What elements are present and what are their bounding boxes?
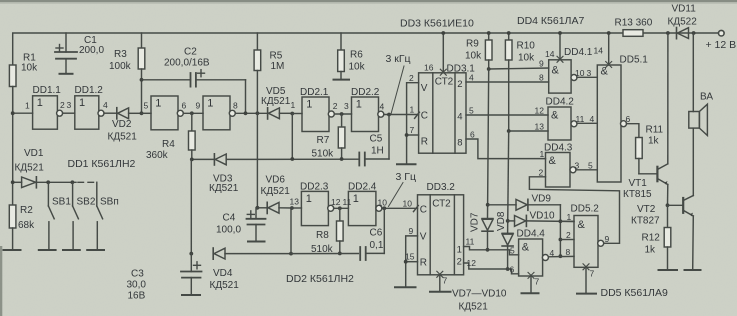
- node SB1 top: [46, 180, 50, 184]
- ground of DD3.2 VR riser: [395, 286, 416, 288]
- svg-text:3: 3: [67, 100, 72, 110]
- svg-text:DD4.4: DD4.4: [517, 229, 546, 240]
- svg-text:&: &: [522, 242, 530, 254]
- svg-text:3: 3: [344, 101, 349, 111]
- svg-text:R3: R3: [114, 49, 127, 60]
- svg-text:VD6: VD6: [266, 175, 286, 186]
- wire: DD3.2 out1 (pin11) to DD4.4 pin5: [464, 247, 519, 255]
- wire: VT1 emitter down to VT2 base node: [667, 185, 669, 206]
- resistor R2: [9, 182, 16, 250]
- resistor R1: [9, 65, 16, 87]
- svg-text:VD11: VD11: [672, 4, 697, 15]
- plus C4: [247, 211, 254, 218]
- power pin 7 of DD3.2: [437, 271, 443, 291]
- svg-text:DD1.1: DD1.1: [33, 85, 62, 96]
- svg-text:СТ2: СТ2: [432, 199, 451, 210]
- plus C1: [56, 45, 63, 52]
- svg-text:2: 2: [457, 257, 462, 268]
- svg-text:R12: R12: [642, 233, 661, 244]
- resistor R13 horizontal: [623, 30, 643, 37]
- wire: DD2.3 out to DD2.4 in: [334, 207, 349, 209]
- scan smudge left edge: [0, 246, 2, 316]
- capacitor C5: [359, 153, 389, 166]
- svg-text:4: 4: [103, 100, 108, 110]
- wire: DD1.4 out to VD5 and R5: [235, 112, 267, 114]
- wire: DD3.1 V input stub and ground riser: [407, 83, 419, 164]
- svg-text:DD4.3: DD4.3: [544, 143, 573, 154]
- wire: DD3.1 R input stub: [407, 134, 419, 136]
- wire: left vertical to VD1 row: [12, 113, 14, 182]
- node bus input2: [559, 238, 563, 242]
- svg-text:R9: R9: [466, 39, 479, 50]
- svg-text:1: 1: [306, 193, 312, 205]
- svg-text:14: 14: [545, 49, 555, 59]
- svg-text:30,0: 30,0: [127, 280, 147, 291]
- power pin 14 of DD5.1: [606, 33, 612, 68]
- wire: R10 line down to VD8: [508, 131, 509, 233]
- node VD4-C3: [189, 252, 193, 256]
- svg-text:14: 14: [594, 46, 604, 56]
- wire: DD3.1 out 2 (pin4) to DD4.1 pin8: [466, 81, 549, 83]
- svg-text:68k: 68k: [18, 220, 35, 231]
- plus C3: [194, 262, 201, 269]
- svg-text:DD2.2: DD2.2: [351, 87, 380, 98]
- wire: DD1.1 out to DD1.2 in: [63, 112, 75, 114]
- diode VD8 vertical: [502, 233, 513, 269]
- svg-text:12: 12: [331, 197, 341, 207]
- inverter DD2.4: [348, 191, 382, 225]
- wire: dashed segment to SBn: [78, 181, 94, 183]
- node VD6-C4 tee: [256, 206, 260, 210]
- svg-text:2: 2: [409, 73, 414, 83]
- ground of DD5.2 pin7: [577, 293, 596, 295]
- svg-text:1: 1: [410, 105, 415, 115]
- svg-text:7: 7: [443, 276, 448, 286]
- node C5-wire to DD2.1 input riser: [290, 157, 294, 161]
- terminal +12V: [719, 30, 725, 36]
- svg-text:VD7: VD7: [470, 212, 481, 232]
- svg-text:9: 9: [409, 226, 414, 236]
- svg-text:2: 2: [60, 100, 65, 110]
- wire: DD4.2 out to DD5.1 pin4: [577, 122, 597, 124]
- svg-text:11: 11: [343, 197, 352, 207]
- diode VD9: [488, 199, 561, 210]
- capacitor C3 electrolytic: [181, 254, 202, 295]
- node VD10 tap on R10 line: [506, 219, 510, 223]
- svg-text:16: 16: [424, 63, 434, 73]
- resistor R12: [664, 205, 671, 269]
- svg-text:1M: 1M: [271, 61, 285, 72]
- diode VD4: [213, 248, 291, 259]
- resistor R11: [636, 138, 643, 174]
- svg-text:DD2.4: DD2.4: [348, 182, 377, 193]
- wire: DD3.2 V input stub and ground riser: [406, 236, 418, 287]
- svg-text:&: &: [549, 155, 557, 167]
- svg-text:2: 2: [539, 167, 544, 177]
- svg-text:510k: 510k: [312, 149, 335, 160]
- inverter DD2.1: [302, 97, 334, 132]
- node V-R riser R stub: [405, 133, 409, 137]
- svg-text:1: 1: [207, 97, 213, 109]
- NAND gate DD4.3: [546, 153, 577, 188]
- diode VD11: [677, 28, 689, 39]
- svg-text:DD2.3: DD2.3: [300, 182, 329, 193]
- svg-text:4: 4: [550, 248, 555, 258]
- svg-text:SB1: SB1: [52, 197, 71, 208]
- wire: VT2 collector up to speaker: [692, 128, 694, 195]
- svg-text:R11: R11: [646, 125, 664, 136]
- ground of DD3.1 VR riser: [397, 163, 416, 165]
- svg-text:7: 7: [410, 125, 415, 135]
- svg-text:R10: R10: [517, 41, 536, 52]
- svg-text:DD4 К561ЛА7: DD4 К561ЛА7: [517, 15, 584, 27]
- node R10 bottom: [507, 129, 511, 133]
- svg-text:КТ815: КТ815: [623, 189, 652, 200]
- node R8 bottom: [338, 252, 342, 256]
- svg-text:5: 5: [144, 100, 149, 110]
- svg-text:VT2: VT2: [637, 204, 656, 215]
- svg-text:1: 1: [155, 97, 161, 109]
- wire: R10 node to DD4.2 pin13: [509, 130, 548, 132]
- wire: VT2 emitter down to ground: [692, 216, 695, 270]
- power pin 14 of DD4.1: [557, 33, 563, 62]
- svg-text:9: 9: [605, 234, 610, 244]
- wire: DD1.2 out to VD2: [104, 112, 117, 114]
- svg-text:3 кГц: 3 кГц: [386, 53, 411, 65]
- svg-text:VD1: VD1: [24, 148, 44, 159]
- wire: C5 feedback row with VD3: [192, 154, 358, 165]
- wire: DD5.2 pin1 stub: [560, 220, 574, 222]
- wire: VD9 corner down the DD5.2 input bus: [559, 205, 561, 256]
- svg-text:DD2 К561ЛН2: DD2 К561ЛН2: [286, 273, 354, 285]
- svg-text:R: R: [421, 137, 428, 148]
- svg-text:1: 1: [291, 100, 296, 110]
- power pin 16 of DD3.1: [440, 33, 446, 75]
- svg-text:VD4: VD4: [213, 268, 233, 279]
- node rail DD3.1 pin16: [441, 31, 445, 35]
- svg-text:КД522: КД522: [668, 17, 698, 28]
- node VD7 bottom on out11 wire: [486, 248, 490, 252]
- node DD2.3 input: [290, 206, 294, 210]
- power pin 7 of DD5.2: [583, 264, 589, 293]
- svg-text:C6: C6: [370, 228, 383, 239]
- NAND gate DD4.4: [519, 239, 549, 276]
- svg-text:R13 360: R13 360: [615, 18, 653, 29]
- svg-text:11: 11: [466, 237, 475, 247]
- plus C2: [198, 70, 205, 77]
- wire: DD3.2 R input stub: [406, 261, 418, 263]
- wire: R9 node to DD4.1 pin9: [489, 68, 549, 69]
- diode VD10: [508, 215, 574, 226]
- wire: R9 line down to VD7: [488, 69, 489, 219]
- svg-text:10k: 10k: [21, 63, 38, 74]
- svg-text:КД521: КД521: [209, 183, 239, 194]
- svg-text:5: 5: [469, 106, 474, 116]
- inverter DD1.2: [75, 96, 104, 129]
- capacitor C2 in feedback wire: [142, 73, 246, 87]
- svg-text:10k: 10k: [518, 53, 535, 64]
- node VR riser R stub DD3.2: [404, 260, 408, 264]
- wire: DD2.1 out to DD2.2 in: [334, 113, 351, 115]
- svg-text:16В: 16В: [128, 291, 146, 302]
- node rail speaker tap: [692, 31, 696, 35]
- svg-text:DD5 К561ЛА9: DD5 К561ЛА9: [601, 287, 668, 299]
- ground of R12: [659, 269, 678, 271]
- svg-text:DD5.2: DD5.2: [571, 204, 600, 215]
- svg-text:8: 8: [233, 100, 238, 110]
- node rail DD5.1 pin14: [607, 31, 611, 35]
- svg-text:10k: 10k: [349, 62, 366, 73]
- svg-text:R: R: [420, 257, 427, 268]
- resistor R4: [189, 113, 196, 159]
- svg-text:SBп: SBп: [100, 197, 119, 208]
- resistor R5: [254, 33, 261, 113]
- wire: DD5.1 out to R11: [627, 124, 639, 138]
- resistor R8: [337, 208, 344, 253]
- NAND gate DD4.2: [548, 107, 577, 140]
- svg-text:4: 4: [380, 102, 385, 112]
- svg-text:СТ2: СТ2: [435, 77, 454, 88]
- svg-text:6: 6: [182, 100, 187, 110]
- wire: C6 row left segment: [291, 253, 358, 255]
- wire: C2 feedback down to DD1.4 output: [245, 80, 247, 114]
- svg-text:DD4.2: DD4.2: [546, 97, 575, 108]
- svg-text:2: 2: [566, 230, 571, 240]
- wire: R4 node down to VD4 row: [190, 159, 192, 253]
- wire: DD3.1 out 8 (pin6) to DD4.3 pin1: [466, 139, 546, 159]
- node osc2 output: [387, 113, 391, 117]
- svg-text:100,0: 100,0: [216, 225, 241, 236]
- svg-text:КД521: КД521: [210, 280, 240, 291]
- svg-text:КД521: КД521: [459, 302, 489, 313]
- node DD1.1 input: [11, 111, 15, 115]
- inverter DD1.3: [151, 96, 183, 130]
- node R5 bottom / osc1 output: [256, 111, 260, 115]
- resistor R9: [485, 33, 492, 69]
- wire: DD4.3 out to DD5.1 pin5: [576, 169, 597, 171]
- svg-text:1: 1: [306, 99, 312, 111]
- node VT2 base: [666, 203, 670, 207]
- diode VD5: [268, 108, 293, 119]
- svg-text:1: 1: [353, 193, 359, 205]
- svg-text:DD3.2: DD3.2: [427, 182, 456, 193]
- svg-text:C5: C5: [370, 134, 383, 145]
- svg-text:C3: C3: [131, 269, 144, 280]
- svg-text:200,0/16В: 200,0/16В: [164, 58, 210, 69]
- resistor R10: [505, 33, 512, 131]
- ground of DD4.4 pin7: [522, 292, 539, 294]
- node R9 bottom: [487, 67, 491, 71]
- svg-text:9: 9: [196, 100, 201, 110]
- svg-text:DD1 К561ЛН2: DD1 К561ЛН2: [68, 158, 136, 170]
- svg-text:DD4.1: DD4.1: [564, 47, 593, 58]
- ground of SB1: [39, 249, 56, 251]
- node R7 bottom: [340, 157, 344, 161]
- node bus input8: [559, 254, 563, 258]
- svg-text:DD2.1: DD2.1: [300, 87, 329, 98]
- top scan edge: [0, 0, 737, 2]
- svg-text:VD8: VD8: [496, 211, 507, 231]
- svg-text:R7: R7: [317, 135, 330, 146]
- node rail R10: [507, 31, 511, 35]
- wire: VD2 node to DD1.3: [142, 112, 152, 114]
- svg-text:2: 2: [457, 79, 462, 90]
- pointer line 3Hz: [389, 183, 404, 207]
- wire: DD2.4 out to DD3.2 C input: [382, 207, 418, 209]
- svg-text:R8: R8: [316, 230, 329, 241]
- wire: DD3.2 out2 (pin12) to DD4.4 pin6: [464, 263, 519, 274]
- svg-text:7: 7: [535, 277, 540, 287]
- svg-text:13: 13: [535, 122, 545, 132]
- wire: osc3 output down to C6 wire: [383, 208, 385, 253]
- diode VD1: [13, 177, 76, 188]
- wire: into DD2.1: [292, 113, 302, 115]
- NAND gate DD5.2: [574, 216, 604, 268]
- svg-text:1: 1: [567, 212, 572, 222]
- node osc3 output: [382, 206, 386, 210]
- switch SBn: [97, 182, 103, 249]
- ground of DD3.2 pin7: [430, 291, 451, 293]
- node R4 top: [190, 111, 194, 115]
- inverter DD2.2: [352, 97, 384, 132]
- svg-text:1k: 1k: [648, 136, 660, 147]
- node R7 top: [340, 112, 344, 116]
- capacitor C4 electrolytic: [247, 208, 266, 241]
- svg-text:C2: C2: [184, 47, 197, 58]
- resistor R3: [138, 33, 145, 113]
- wire: VT1 collector up to rail: [667, 33, 669, 164]
- svg-text:12: 12: [467, 258, 477, 268]
- svg-text:1: 1: [457, 245, 462, 256]
- wire: DD4.3 pin2 loop to DD5.2 out9: [529, 177, 619, 244]
- svg-text:8: 8: [539, 73, 544, 83]
- wire: DD2.1 input node down to C5 wire: [291, 114, 293, 160]
- wire: R1 to DD1.1 input row: [12, 87, 14, 114]
- svg-text:&: &: [601, 66, 609, 78]
- svg-text:КД521: КД521: [261, 186, 291, 197]
- svg-text:КТ827: КТ827: [631, 216, 660, 227]
- svg-text:10: 10: [575, 68, 585, 78]
- svg-text:4: 4: [590, 114, 595, 124]
- svg-text:10: 10: [378, 198, 388, 208]
- svg-text:1: 1: [540, 149, 545, 159]
- svg-text:3: 3: [575, 160, 580, 170]
- NAND gate DD4.1: [549, 60, 577, 93]
- switch SB2: [73, 182, 79, 249]
- svg-text:КД521: КД521: [15, 163, 45, 174]
- diode VD7 vertical: [482, 219, 493, 250]
- svg-text:+ 12 В: + 12 В: [706, 39, 737, 51]
- node rail DD4.1 pin14: [558, 31, 562, 35]
- dynamic C input tick DD3.2: [414, 206, 419, 212]
- node SB2 top: [71, 180, 75, 184]
- svg-text:2: 2: [333, 101, 338, 111]
- svg-text:1k: 1k: [645, 245, 657, 256]
- node DD1.3 input: [140, 111, 144, 115]
- svg-text:&: &: [552, 65, 560, 77]
- node C6-wire to DD2.3 input riser: [289, 252, 293, 256]
- svg-text:4: 4: [457, 112, 462, 123]
- svg-text:1: 1: [356, 99, 362, 111]
- svg-text:КД521: КД521: [108, 132, 138, 143]
- svg-text:DD5.1: DD5.1: [620, 55, 649, 66]
- svg-text:6: 6: [626, 114, 631, 124]
- svg-text:1: 1: [25, 100, 30, 110]
- svg-text:VD7—VD10: VD7—VD10: [452, 289, 507, 300]
- wire: DD1.3 out to DD1.4 in: [183, 112, 203, 114]
- svg-text:1: 1: [79, 97, 85, 109]
- ground of R6: [334, 79, 350, 81]
- svg-text:C4: C4: [223, 213, 236, 224]
- svg-text:15: 15: [405, 252, 415, 262]
- svg-text:4: 4: [469, 73, 474, 83]
- svg-text:V: V: [421, 83, 428, 94]
- wire: DD4.4 out to DD5.2 pin8: [546, 255, 574, 257]
- wire: DD4.1 out to DD5.1 pin3: [577, 76, 597, 78]
- ground of SB2: [63, 249, 80, 251]
- wire: DD3.1 out 4 (pin5) to DD4.2 pin12: [466, 114, 548, 116]
- svg-text:VD9: VD9: [532, 194, 552, 205]
- svg-text:7: 7: [590, 269, 595, 279]
- diode VD2: [117, 108, 142, 119]
- svg-text:R4: R4: [162, 139, 175, 150]
- inverter DD1.1: [33, 96, 63, 129]
- wire: node to VT2 base: [668, 204, 683, 206]
- svg-text:5: 5: [588, 160, 593, 170]
- NAND gate DD5.1 tall: [597, 65, 626, 182]
- svg-text:6: 6: [510, 264, 515, 274]
- wire: DD2.2 out to DD3.1 C input: [384, 114, 419, 116]
- svg-text:12: 12: [535, 106, 545, 116]
- resistor R6: [338, 33, 345, 79]
- svg-text:VD10: VD10: [530, 211, 555, 222]
- svg-text:V: V: [420, 232, 427, 243]
- svg-text:&: &: [551, 110, 559, 122]
- resistor R7: [338, 114, 345, 159]
- counter DD3.1: [419, 73, 466, 153]
- wire: +12V top rail from left corner to R13: [13, 33, 623, 113]
- svg-text:10k: 10k: [465, 51, 482, 62]
- node R8 top: [338, 206, 342, 210]
- node rail R9: [487, 31, 491, 35]
- node VD8 bottom on out12 wire: [506, 267, 510, 271]
- diode VD6: [257, 202, 292, 213]
- svg-text:11: 11: [576, 114, 585, 124]
- ground of C1: [60, 73, 73, 75]
- wire: bus to DD5.2 pin2: [560, 239, 574, 241]
- wire: rail from R13 to VD11 to terminal: [643, 32, 719, 34]
- node R4-VD3 tee: [190, 158, 194, 162]
- node VD1-R2: [11, 180, 15, 184]
- svg-text:SB2: SB2: [77, 197, 96, 208]
- svg-text:КД521: КД521: [261, 96, 291, 107]
- ground of R2: [4, 249, 21, 251]
- node rail VT1 collector: [666, 31, 670, 35]
- svg-text:VT1: VT1: [629, 178, 648, 189]
- capacitor C1: [55, 33, 77, 74]
- svg-text:R5: R5: [270, 51, 283, 62]
- svg-text:13: 13: [290, 197, 300, 207]
- wire: osc1 out down to VD6/C4: [256, 113, 258, 208]
- node R3-C2 tee: [140, 78, 144, 82]
- svg-text:1: 1: [37, 97, 43, 109]
- wire: DD1.1 input stub: [13, 112, 33, 114]
- svg-text:8: 8: [566, 247, 571, 257]
- ground of C3: [182, 294, 200, 296]
- svg-text:VD2: VD2: [112, 119, 132, 130]
- svg-text:3: 3: [587, 68, 592, 78]
- node C2-DD1.4out: [244, 111, 248, 115]
